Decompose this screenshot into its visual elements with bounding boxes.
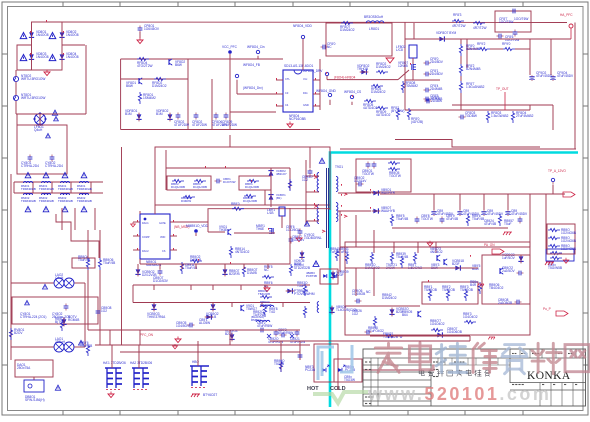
svg-text:TSM4M2: TSM4M2 bbox=[405, 84, 418, 88]
svg-text:4TUF2DW: 4TUF2DW bbox=[192, 123, 207, 127]
svg-text:RM8O1: RM8O1 bbox=[251, 318, 261, 322]
svg-text:WAUHYB: WAUHYB bbox=[381, 209, 395, 213]
svg-text:4TUF2DW: 4TUF2DW bbox=[222, 123, 237, 127]
svg-text:CTRHA-224 (2O1): CTRHA-224 (2O1) bbox=[20, 315, 46, 319]
svg-text:HA'1 3TD2B/O6: HA'1 3TD2B/O6 bbox=[103, 361, 126, 365]
svg-text:VCC_PFC: VCC_PFC bbox=[222, 45, 238, 49]
svg-text:4TuFO4O2: 4TuFO4O2 bbox=[368, 329, 384, 333]
svg-text:SFW-S-B6(H): SFW-S-B6(H) bbox=[25, 398, 45, 402]
svg-text:T5uF/4B: T5uF/4B bbox=[80, 344, 92, 348]
svg-text:4R7/T2W: 4R7/T2W bbox=[452, 24, 465, 28]
svg-text:BR3OS5OuH: BR3OS5OuH bbox=[364, 15, 384, 19]
svg-text:TGDBGRNL: TGDBGRNL bbox=[304, 236, 322, 240]
svg-text:B(TV: B(TV bbox=[55, 320, 63, 324]
svg-text:D1O2/63V: D1O2/63V bbox=[153, 279, 169, 283]
svg-text:D1M24O2: D1M24O2 bbox=[340, 28, 355, 32]
svg-text:MMB91O_VDD: MMB91O_VDD bbox=[186, 224, 209, 228]
svg-text:1N4OO8: 1N4OO8 bbox=[66, 33, 79, 37]
svg-text:T5uF/4B: T5uF/4B bbox=[185, 266, 197, 270]
svg-text:Q4uH: Q4uH bbox=[34, 128, 43, 132]
svg-text:4TuF/45DV: 4TuF/45DV bbox=[557, 74, 574, 78]
svg-text:CS: CS bbox=[162, 250, 166, 253]
svg-text:PC8T3B: PC8T3B bbox=[306, 274, 317, 278]
svg-text:CTL: CTL bbox=[285, 77, 290, 81]
svg-text:D0v: D0v bbox=[303, 91, 308, 95]
svg-text:TRIM4RHB: TRIM4RHB bbox=[39, 187, 54, 191]
svg-text:T5uF: T5uF bbox=[297, 284, 304, 288]
svg-text:C3: C3 bbox=[285, 91, 289, 95]
svg-text:DAC1: DAC1 bbox=[142, 222, 149, 225]
svg-text:1O2/1kV: 1O2/1kV bbox=[292, 238, 305, 242]
svg-text:T5uF: T5uF bbox=[504, 222, 511, 226]
svg-text:25Ox75A: 25Ox75A bbox=[17, 366, 31, 370]
svg-text:T5uF/4B: T5uF/4B bbox=[78, 258, 90, 262]
svg-text:GATE: GATE bbox=[159, 222, 166, 225]
svg-text:1O2: 1O2 bbox=[101, 309, 107, 313]
svg-text:WAUHYB: WAUHYB bbox=[381, 191, 395, 195]
svg-text:(F8O4)-HF8O4: (F8O4)-HF8O4 bbox=[334, 76, 356, 80]
svg-text:D1M24O2: D1M24O2 bbox=[371, 90, 386, 94]
svg-text:TRIM4RHB: TRIM4RHB bbox=[77, 187, 92, 191]
svg-text:2D4/5DV: 2D4/5DV bbox=[430, 72, 444, 76]
svg-text:NC: NC bbox=[264, 268, 269, 272]
svg-text:D1M24O2: D1M24O2 bbox=[376, 65, 391, 69]
svg-text:RF8'3: RF8'3 bbox=[453, 13, 462, 17]
svg-text:LR8O1: LR8O1 bbox=[369, 27, 379, 31]
svg-text:4UTD4O2: 4UTD4O2 bbox=[376, 113, 391, 117]
svg-text:Q4uH: Q4uH bbox=[55, 276, 64, 280]
svg-text:TRIM4RHB: TRIM4RHB bbox=[58, 187, 73, 191]
svg-text:NCP16O8B: NCP16O8B bbox=[289, 117, 306, 121]
svg-text:T5O3W: T5O3W bbox=[344, 378, 355, 382]
svg-text:C4: C4 bbox=[285, 103, 289, 107]
svg-text:T9O1: T9O1 bbox=[335, 165, 343, 169]
svg-text:4TUF2DW: 4TUF2DW bbox=[174, 123, 189, 127]
svg-text:1O4O4O2: 1O4O4O2 bbox=[463, 315, 478, 319]
svg-text:T5G4B: T5G4B bbox=[274, 362, 284, 366]
svg-text:PFC_ON: PFC_ON bbox=[140, 333, 154, 337]
svg-text:B23F: B23F bbox=[225, 332, 233, 336]
svg-text:2u2/5OV: 2u2/5OV bbox=[502, 269, 515, 273]
svg-text:1O4O4O2: 1O4O4O2 bbox=[430, 322, 445, 326]
svg-text:TRIM4RHB: TRIM4RHB bbox=[21, 187, 36, 191]
svg-text:4NO4O2: 4NO4O2 bbox=[430, 250, 443, 254]
svg-text:T5uF/4B: T5uF/4B bbox=[103, 261, 115, 265]
svg-text:D1Q1/2DB: D1Q1/2DB bbox=[171, 185, 185, 189]
svg-text:B1M: B1M bbox=[125, 112, 132, 116]
svg-text:TRIM4RHB: TRIM4RHB bbox=[58, 199, 73, 203]
svg-text:T5uF/4B: T5uF/4B bbox=[472, 217, 484, 221]
svg-text:1N4OO8: 1N4OO8 bbox=[66, 55, 79, 59]
svg-text:1O2/4O6B: 1O2/4O6B bbox=[561, 247, 576, 251]
svg-text:B23F: B23F bbox=[294, 262, 302, 266]
svg-text:D1Q1/2DB: D1Q1/2DB bbox=[243, 199, 257, 203]
svg-text:(WF8O4_Drv): (WF8O4_Drv) bbox=[243, 86, 263, 90]
svg-text:4TuF/4B: 4TuF/4B bbox=[446, 217, 458, 221]
svg-text:1O6/45OV: 1O6/45OV bbox=[144, 27, 160, 31]
svg-text:1O4O6OB: 1O4O6OB bbox=[447, 330, 462, 334]
svg-text:TP_OUT: TP_OUT bbox=[496, 87, 509, 91]
svg-text:THKE37R6A: THKE37R6A bbox=[147, 315, 166, 319]
svg-text:1.5uGW4B2: 1.5uGW4B2 bbox=[491, 114, 509, 118]
svg-text:TRHOB: TRHOB bbox=[357, 67, 368, 71]
svg-text:VDF8O7 BYM: VDF8O7 BYM bbox=[436, 31, 457, 35]
svg-text:1O2/4O6B: 1O2/4O6B bbox=[561, 231, 576, 235]
svg-text:TGDBW: TGDBW bbox=[465, 114, 477, 118]
svg-text:TGOTW: TGOTW bbox=[421, 217, 433, 221]
svg-text:D1M24O2: D1M24O2 bbox=[152, 84, 167, 88]
svg-text:T4O: T4O bbox=[269, 310, 276, 314]
svg-text:RF9'0: RF9'0 bbox=[502, 42, 511, 46]
svg-text:1O4/5OB: 1O4/5OB bbox=[352, 292, 365, 296]
svg-text:4TuF/45DV: 4TuF/45DV bbox=[536, 74, 553, 78]
svg-text:1OO/5OV: 1OO/5OV bbox=[286, 228, 301, 232]
svg-text:1OO/T6W: 1OO/T6W bbox=[499, 20, 513, 24]
svg-text:B2OV: B2OV bbox=[14, 331, 23, 335]
svg-text:RF9'2: RF9'2 bbox=[477, 42, 486, 46]
svg-text:D1Q1/2DB: D1Q1/2DB bbox=[245, 185, 259, 189]
svg-text:1uF/5OV: 1uF/5OV bbox=[502, 256, 516, 260]
svg-text:T5uF/4B: T5uF/4B bbox=[396, 255, 408, 259]
svg-text:HA2 3TD2B/O6: HA2 3TD2B/O6 bbox=[130, 361, 152, 365]
svg-text:4TuF/R5W: 4TuF/R5W bbox=[257, 324, 272, 328]
svg-text:D1Q1/2DB: D1Q1/2DB bbox=[193, 185, 207, 189]
svg-text:2u2O6OB: 2u2O6OB bbox=[498, 301, 512, 305]
svg-text:2D4/5DV: 2D4/5DV bbox=[430, 60, 444, 64]
svg-text:TH6E: TH6E bbox=[256, 227, 264, 231]
svg-text:CTRHA-2D4: CTRHA-2D4 bbox=[45, 164, 63, 168]
svg-text:B6W: B6W bbox=[126, 84, 133, 88]
svg-text:PA_ON: PA_ON bbox=[484, 243, 495, 247]
svg-text:2D4M4B: 2D4M4B bbox=[430, 87, 442, 91]
svg-text:TRIM4RHB: TRIM4RHB bbox=[21, 199, 36, 203]
svg-text:1O2: 1O2 bbox=[302, 178, 308, 182]
svg-text:D1O7OW: D1O7OW bbox=[223, 180, 236, 184]
svg-text:PC23B: PC23B bbox=[305, 368, 315, 372]
svg-text:WF8O4_FB: WF8O4_FB bbox=[243, 63, 260, 67]
svg-text:WF8O4_GND: WF8O4_GND bbox=[316, 89, 337, 93]
svg-text:2D5uH: 2D5uH bbox=[55, 340, 66, 344]
svg-text:ALO5W: ALO5W bbox=[199, 321, 210, 325]
svg-text:B1M: B1M bbox=[156, 112, 163, 116]
svg-text:L/C8: L/C8 bbox=[396, 48, 403, 52]
svg-text:T5/F2OB: T5/F2OB bbox=[460, 288, 473, 292]
svg-text:RB9'0: RB9'0 bbox=[231, 202, 240, 206]
svg-text:1O2/4O6B: 1O2/4O6B bbox=[561, 239, 576, 243]
svg-text:HA_PFC: HA_PFC bbox=[560, 13, 573, 17]
svg-text:1OO/T6W: 1OO/T6W bbox=[514, 17, 528, 21]
svg-text:4TO/2T2W: 4TO/2T2W bbox=[137, 64, 153, 68]
svg-text:4R7/T2W: 4R7/T2W bbox=[473, 26, 486, 30]
svg-text:2D4BW: 2D4BW bbox=[431, 99, 442, 103]
svg-text:L/1B: L/1B bbox=[267, 211, 274, 215]
svg-text:4TD24O2B: 4TD24O2B bbox=[294, 266, 310, 270]
svg-text:T5/F2OB: T5/F2OB bbox=[424, 288, 437, 292]
svg-text:TRIM4RHB: TRIM4RHB bbox=[77, 199, 92, 203]
svg-text:CTRHA-2D4: CTRHA-2D4 bbox=[21, 164, 39, 168]
svg-text:GND: GND bbox=[303, 103, 309, 107]
svg-text:TGOTW: TGOTW bbox=[389, 174, 401, 178]
svg-text:TB/F2OB: TB/F2OB bbox=[258, 292, 270, 296]
svg-text:B2N4M4B: B2N4M4B bbox=[466, 47, 481, 51]
svg-text:B23F/B: B23F/B bbox=[229, 272, 240, 276]
svg-text:NC: NC bbox=[327, 45, 332, 49]
svg-text:WF8O4_Cin: WF8O4_Cin bbox=[247, 45, 265, 49]
svg-text:(BY2DW): (BY2DW) bbox=[391, 109, 404, 113]
svg-text:12N6B: 12N6B bbox=[398, 64, 408, 68]
svg-text:T5/F2OB: T5/F2OB bbox=[442, 288, 455, 292]
svg-text:4NTD4O2: 4NTD4O2 bbox=[235, 250, 250, 254]
svg-text:DAC2: DAC2 bbox=[142, 250, 149, 253]
svg-text:D34DW: D34DW bbox=[181, 199, 191, 203]
svg-text:1O4/5OV: 1O4/5OV bbox=[176, 324, 190, 328]
svg-text:D1M/B: D1M/B bbox=[247, 271, 257, 275]
svg-text:B2N4M4B: B2N4M4B bbox=[466, 67, 481, 71]
svg-text:WRTU-5RO1OW: WRTU-5RO1OW bbox=[21, 77, 45, 81]
svg-text:COMP: COMP bbox=[142, 236, 150, 239]
svg-text:B23F: B23F bbox=[452, 262, 460, 266]
svg-text:4B31O7: 4B31O7 bbox=[276, 172, 287, 176]
svg-text:Pu_P: Pu_P bbox=[543, 307, 551, 311]
svg-text:1N4OO8: 1N4OO8 bbox=[36, 33, 49, 37]
svg-text:D4DW6: D4DW6 bbox=[190, 258, 201, 262]
svg-text:WRTU-5RO1OW: WRTU-5RO1OW bbox=[21, 96, 45, 100]
svg-text:T5uF/4B: T5uF/4B bbox=[396, 217, 408, 221]
svg-text:RGM4B: RGM4B bbox=[68, 318, 79, 322]
svg-text:BTY6O2T: BTY6O2T bbox=[203, 393, 217, 397]
svg-text:TP_A_12VO: TP_A_12VO bbox=[548, 169, 566, 173]
svg-text:D1M24O2: D1M24O2 bbox=[382, 296, 397, 300]
svg-text:1N4OO8: 1N4OO8 bbox=[36, 55, 49, 59]
svg-text:www.520101.com: www.520101.com bbox=[367, 384, 551, 404]
svg-text:WF8O4_CS: WF8O4_CS bbox=[344, 90, 361, 94]
svg-text:4TuF/4B: 4TuF/4B bbox=[484, 222, 496, 226]
svg-text:TRIM4RHB: TRIM4RHB bbox=[39, 199, 54, 203]
svg-text:B23F: B23F bbox=[396, 310, 404, 314]
svg-text:2TuF4M4B2: 2TuF4M4B2 bbox=[516, 114, 534, 118]
svg-text:VDD: VDD bbox=[160, 236, 165, 239]
svg-text:B4R: B4R bbox=[470, 283, 477, 287]
svg-text:1SM4M2: 1SM4M2 bbox=[143, 96, 156, 100]
svg-text:4TuF/45DV: 4TuF/45DV bbox=[487, 212, 504, 216]
svg-text:1.5Gu3N4B2: 1.5Gu3N4B2 bbox=[466, 85, 485, 89]
svg-text:WF8O4_DRV: WF8O4_DRV bbox=[303, 69, 323, 73]
svg-text:SD13-AS-13F-6DO1: SD13-AS-13F-6DO1 bbox=[284, 64, 313, 68]
svg-text:Vcc: Vcc bbox=[303, 77, 308, 81]
svg-text:HOT: HOT bbox=[307, 386, 319, 392]
svg-text:4TuF/45DV: 4TuF/45DV bbox=[511, 212, 528, 216]
svg-text:TB4O4O2: TB4O4O2 bbox=[489, 286, 504, 290]
svg-text:NC: NC bbox=[366, 290, 371, 294]
svg-text:NF8O4_VDD: NF8O4_VDD bbox=[293, 24, 312, 28]
svg-text:TM72OB: TM72OB bbox=[260, 303, 272, 307]
svg-text:1O2: 1O2 bbox=[352, 312, 358, 316]
svg-text:T5G/W5B: T5G/W5B bbox=[548, 266, 562, 270]
svg-text:(4DY2B): (4DY2B) bbox=[411, 120, 423, 124]
svg-text:(B1): (B1) bbox=[276, 196, 281, 200]
svg-text:B6W: B6W bbox=[175, 63, 182, 67]
